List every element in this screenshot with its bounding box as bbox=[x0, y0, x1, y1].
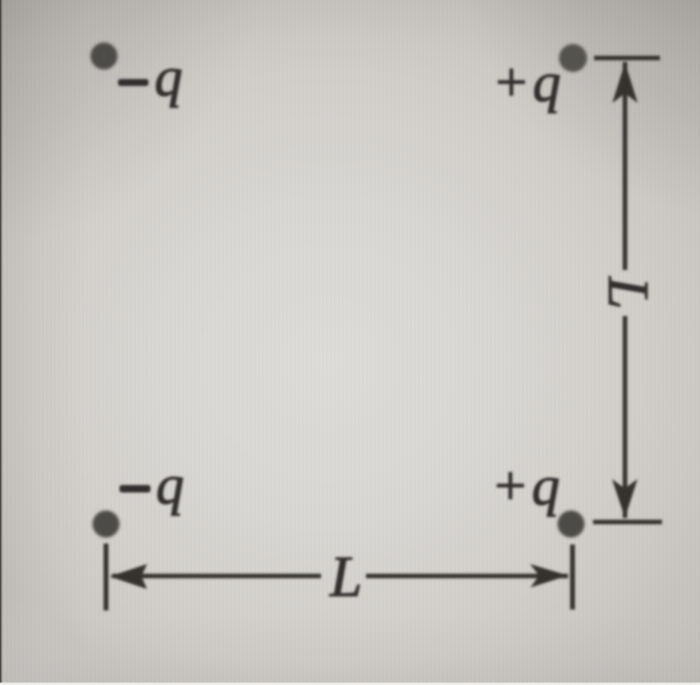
bottom dimension right arrowhead bbox=[530, 564, 568, 588]
bottom dimension line right segment bbox=[366, 574, 568, 578]
svg-text:+q: +q bbox=[492, 52, 564, 114]
right dimension up arrowhead bbox=[612, 63, 637, 104]
bottom dimension left tick bbox=[104, 544, 109, 611]
label -q top-left : minus bar bbox=[118, 79, 149, 86]
charge dot +q top-right bbox=[559, 44, 587, 72]
right dimension top tick bbox=[594, 56, 660, 60]
right dimension bottom tick bbox=[593, 520, 662, 524]
svg-text:L: L bbox=[596, 276, 661, 309]
svg-text:q: q bbox=[156, 455, 184, 517]
charge dot +q bottom-right bbox=[558, 511, 585, 538]
label -q bottom-left : minus bar bbox=[120, 485, 151, 493]
right dimension down arrowhead bbox=[612, 479, 638, 518]
charge dot -q top-left bbox=[91, 43, 118, 70]
svg-text:L: L bbox=[329, 544, 362, 609]
bottom dimension left arrowhead bbox=[110, 564, 148, 589]
charge dot -q bottom-left bbox=[93, 511, 120, 538]
bottom dimension right tick bbox=[570, 545, 575, 610]
svg-text:q: q bbox=[155, 47, 183, 109]
right dimension vertical line upper segment bbox=[623, 62, 628, 270]
bottom dimension line left segment bbox=[112, 574, 321, 578]
svg-text:+q: +q bbox=[491, 456, 563, 518]
right dimension vertical line lower segment bbox=[623, 316, 628, 518]
